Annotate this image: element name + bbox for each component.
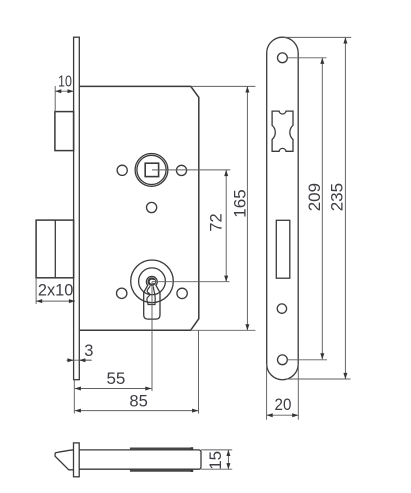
bottom screw hole bbox=[278, 355, 288, 365]
dimension 20 line bbox=[267, 414, 299, 416]
fixing hole right of keyhole bbox=[177, 288, 187, 298]
keyhole middle circle bbox=[139, 268, 166, 295]
deadbolt cutout bbox=[276, 220, 290, 278]
striking plate outline (right view) bbox=[267, 37, 299, 380]
keyhole outer circle bbox=[131, 260, 174, 303]
dimension 209 top extension bbox=[287, 57, 326, 59]
svg-text:85: 85 bbox=[129, 392, 147, 411]
dimension 55-85 left extension line bbox=[73, 381, 75, 414]
dimension 15 bottom extension bbox=[201, 468, 232, 470]
top screw hole bbox=[278, 53, 288, 63]
svg-text:55: 55 bbox=[106, 369, 125, 388]
key shank ring bbox=[149, 279, 155, 285]
svg-text:209: 209 bbox=[305, 183, 324, 211]
latch bolt (front view) bbox=[55, 112, 74, 151]
dimension 20 left extension bbox=[266, 364, 268, 420]
dimension 235 top extension bbox=[284, 36, 352, 38]
dimension 15 line bbox=[227, 450, 229, 469]
deadbolt (front view) bbox=[36, 220, 74, 278]
dimension 2x10 extension line bbox=[35, 278, 37, 304]
lock body outline bbox=[79, 86, 199, 330]
keyhole cutout outline bbox=[144, 276, 160, 319]
dimension 55 line bbox=[75, 388, 152, 390]
dimension 85 right extension line bbox=[198, 330, 200, 413]
dimension 20 right extension bbox=[297, 364, 299, 420]
dimension 10 line bbox=[55, 90, 73, 92]
dimension 3 arrows bbox=[67, 359, 74, 361]
case side wall thick top bbox=[130, 447, 192, 449]
fixing hole left of spindle bbox=[117, 165, 127, 175]
keyhole centre line horizontal bbox=[152, 281, 230, 283]
spindle square hole bbox=[145, 163, 158, 176]
dimension 165 line bbox=[246, 86, 248, 330]
latch follower cutout bbox=[272, 111, 293, 151]
svg-text:2x10: 2x10 bbox=[38, 281, 73, 300]
dimension 72 line bbox=[225, 170, 227, 282]
svg-text:165: 165 bbox=[231, 189, 250, 217]
spindle follower inner circle bbox=[137, 155, 166, 184]
dimension 2x10 line bbox=[36, 300, 75, 302]
svg-text:3: 3 bbox=[84, 342, 93, 360]
faceplate (front view, left) bbox=[74, 37, 80, 380]
deadbolt middle line bbox=[54, 220, 56, 278]
svg-text:72: 72 bbox=[208, 213, 226, 231]
lock case (bottom view) bbox=[79, 450, 201, 469]
svg-text:15: 15 bbox=[206, 451, 225, 470]
fixing hole right of spindle bbox=[176, 165, 186, 175]
svg-text:235: 235 bbox=[327, 183, 346, 211]
latch bolt nose (bottom view) bbox=[55, 450, 73, 470]
dimension 10 extension line bbox=[54, 86, 56, 112]
dimension 235 bottom extension bbox=[285, 378, 351, 380]
keyhole centre line vertical bbox=[151, 282, 153, 391]
spindle follower outer circle bbox=[135, 154, 168, 187]
key bit profile bbox=[147, 286, 155, 304]
small hole in plate bbox=[277, 304, 286, 313]
dimension 15 top extension bbox=[201, 449, 232, 451]
fixing hole left of keyhole bbox=[117, 288, 127, 298]
dimension 235 line bbox=[344, 37, 346, 379]
body top edge extension line bbox=[191, 85, 256, 87]
dimension 85 line bbox=[75, 410, 198, 412]
case side wall thick bottom bbox=[130, 469, 192, 471]
dimension 209 line bbox=[321, 58, 323, 360]
svg-text:10: 10 bbox=[58, 74, 72, 91]
dimension 209 bottom extension bbox=[287, 359, 327, 361]
case wall end nub bottom bbox=[191, 469, 194, 472]
spindle centre line bbox=[152, 169, 230, 171]
case wall end nub top bbox=[191, 447, 194, 450]
faceplate (bottom view) bbox=[74, 443, 80, 477]
body bottom edge extension line bbox=[191, 329, 256, 331]
small hole below spindle bbox=[147, 202, 157, 212]
svg-text:20: 20 bbox=[275, 395, 292, 414]
dimension 3 line bbox=[67, 359, 92, 361]
